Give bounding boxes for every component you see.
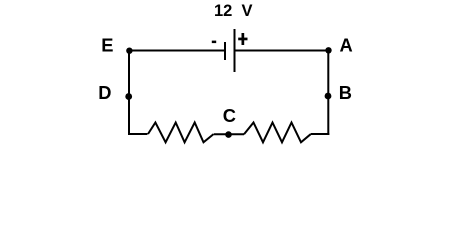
wire right vertical (A down through B): [327, 51, 329, 136]
resistor R2: [244, 123, 311, 143]
wire bottom-middle (R1 to node C to R2): [214, 133, 244, 135]
wire top-left (node E to battery negative plate): [129, 50, 225, 52]
svg-text:E: E: [101, 35, 113, 56]
svg-text:C: C: [223, 105, 236, 126]
svg-text:B: B: [339, 82, 352, 103]
wire left vertical (E down through D): [128, 51, 130, 136]
wire bottom-right (R2 to right vertical): [311, 133, 330, 135]
wire bottom-left (to resistor R1): [128, 133, 148, 135]
node E: [101, 35, 132, 56]
node B: [325, 82, 352, 103]
battery plus sign: [238, 33, 247, 45]
battery minus sign: [212, 41, 216, 44]
wire top-right (battery positive plate to node A): [235, 50, 329, 52]
svg-text:12V: 12V: [214, 2, 253, 20]
battery V1 positive plate (long): [234, 29, 236, 72]
node A: [325, 35, 352, 56]
battery V1 negative plate (short): [224, 42, 226, 60]
node D: [98, 82, 132, 103]
svg-text:A: A: [340, 35, 353, 56]
resistor R1: [148, 123, 214, 143]
node C: [223, 105, 236, 138]
svg-text:D: D: [98, 82, 111, 103]
